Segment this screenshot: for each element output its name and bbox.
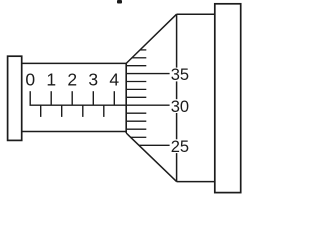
thimble label 35 background [170, 68, 188, 82]
thimble label 25 background [170, 139, 188, 153]
svg-text:25: 25 [171, 138, 189, 156]
thimble minor tick y57.8 [132, 57, 146, 59]
thimble minor tick y121.2 [126, 120, 146, 122]
svg-text:0: 0 [25, 69, 35, 89]
sleeve main tick 4 [113, 91, 115, 105]
thimble bottom line [177, 181, 215, 183]
thimble left edge [125, 63, 127, 133]
ratchet (right rectangle) [215, 4, 241, 193]
thimble minor tick y97.3 [126, 96, 146, 98]
thimble 30 line [126, 104, 169, 106]
svg-text:1: 1 [46, 69, 56, 89]
thimble minor tick y137.3 [131, 136, 147, 138]
sleeve half tick 1.5 [61, 105, 63, 117]
thimble minor tick y129.2 [126, 128, 146, 130]
thimble top line [177, 13, 215, 15]
sleeve half tick 2.5 [82, 105, 84, 117]
thimble minor tick y113.2 [126, 112, 146, 114]
sleeve top line [22, 62, 127, 64]
sleeve main tick 1 [50, 91, 52, 105]
svg-text:35: 35 [171, 66, 189, 84]
sleeve datum line [30, 104, 127, 106]
svg-text:2: 2 [67, 69, 77, 89]
svg-text:3: 3 [88, 69, 98, 89]
sleeve main tick 3 [92, 91, 94, 105]
anvil (left rectangle) [8, 56, 22, 140]
svg-text:4: 4 [109, 69, 119, 89]
svg-text:30: 30 [171, 98, 189, 116]
sleeve main tick 0 [29, 91, 31, 105]
sleeve half tick 0.5 [40, 105, 42, 117]
thimble label 30 background [170, 99, 188, 113]
cropped text remnant at top [117, 0, 122, 4]
thimble right edge [176, 14, 178, 181]
thimble bottom taper diagonal [126, 133, 176, 182]
thimble minor tick y89.4 [126, 88, 146, 90]
thimble top taper diagonal [126, 14, 176, 63]
sleeve main tick 2 [71, 91, 73, 105]
thimble minor tick y49.9 [140, 49, 146, 51]
thimble 35 line [126, 73, 169, 75]
thimble 25 line [139, 144, 170, 146]
thimble minor tick y81.5 [126, 81, 146, 83]
thimble minor tick y65.7 [126, 65, 146, 67]
sleeve half tick 3.5 [103, 105, 105, 117]
sleeve bottom line [22, 131, 127, 133]
